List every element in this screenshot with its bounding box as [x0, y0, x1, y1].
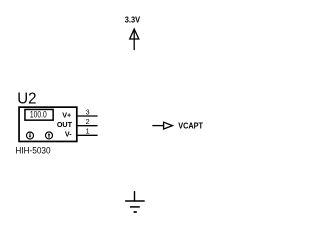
svg-text:3.3V: 3.3V — [125, 16, 141, 25]
svg-text:V-: V- — [65, 129, 72, 138]
svg-text:VCAPT: VCAPT — [178, 121, 203, 131]
svg-text:100.0: 100.0 — [30, 110, 47, 120]
svg-text:HIH-5030: HIH-5030 — [15, 146, 50, 157]
svg-text:2: 2 — [86, 117, 90, 126]
svg-text:3: 3 — [86, 107, 90, 116]
svg-text:U2: U2 — [17, 90, 36, 107]
svg-text:1: 1 — [86, 127, 90, 136]
svg-text:V+: V+ — [62, 111, 71, 120]
svg-text:OUT: OUT — [57, 120, 73, 129]
